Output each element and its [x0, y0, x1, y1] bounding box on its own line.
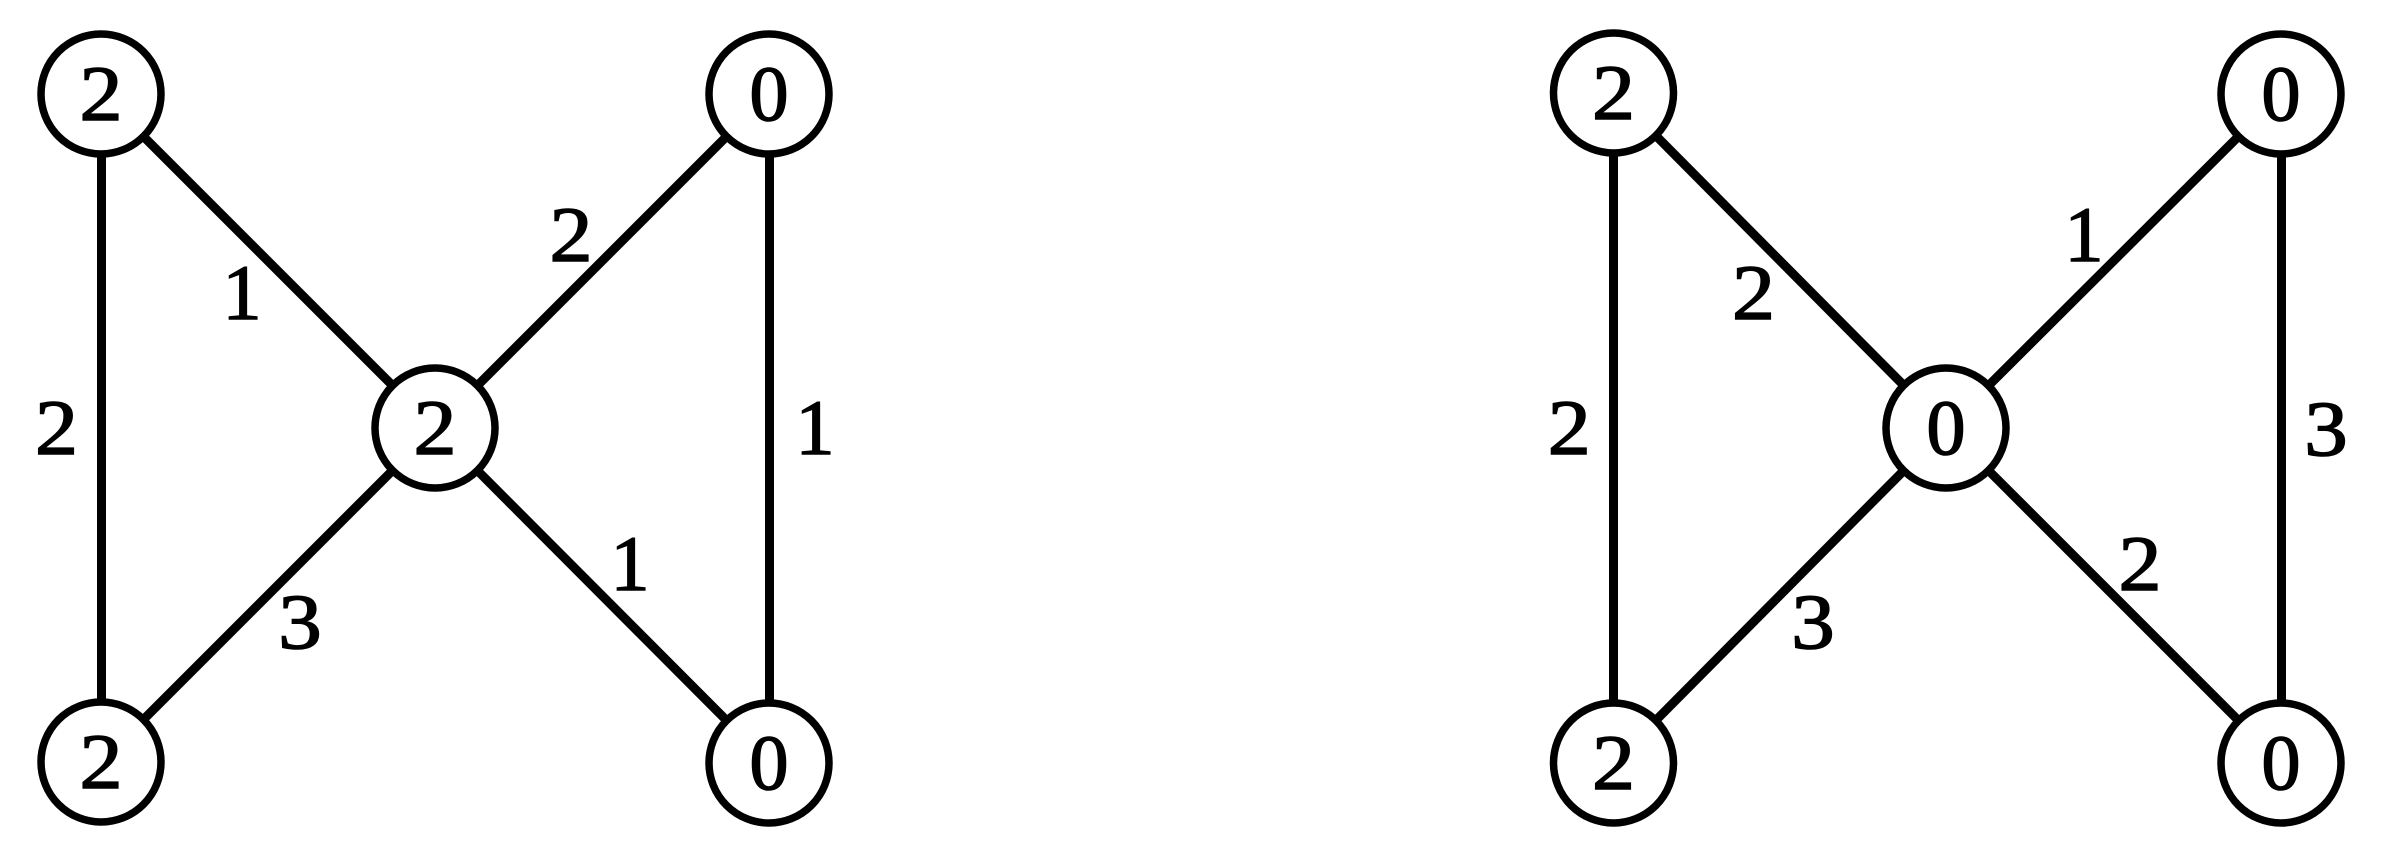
svg-text:2: 2: [80, 50, 123, 137]
node BL2 circle: [1554, 703, 1674, 823]
svg-text:2: 2: [35, 384, 78, 471]
svg-text:3: 3: [2304, 385, 2348, 472]
wire edge TL2-C2: [1614, 93, 1947, 428]
svg-text:0: 0: [1927, 384, 1966, 471]
svg-text:2: 2: [2119, 520, 2162, 607]
svg-text:2: 2: [1732, 249, 1775, 336]
svg-text:1: 1: [611, 520, 650, 607]
wire edge TL2-BL2: [1609, 93, 1618, 763]
svg-text:2: 2: [414, 384, 457, 471]
svg-text:3: 3: [278, 578, 322, 665]
node BR2 circle: [2221, 703, 2341, 823]
svg-text:1: 1: [223, 249, 262, 336]
svg-text:1: 1: [2065, 191, 2104, 278]
svg-text:3: 3: [1791, 578, 1835, 665]
wire edge C1-BR1: [435, 428, 769, 763]
wire edge C1-TR1: [435, 94, 769, 428]
wire edge TL1-C1: [101, 94, 435, 428]
wire edge TR1-BR1: [765, 94, 774, 763]
node BL1 circle: [41, 702, 161, 822]
wire edge TR2-BR2: [2277, 94, 2286, 763]
wire edge BL2-C2: [1614, 428, 1947, 763]
node C1 circle: [375, 368, 495, 488]
svg-text:1: 1: [796, 384, 835, 471]
wire edge TL1-BL1: [97, 94, 106, 762]
wire edge BL1-C1: [101, 428, 435, 762]
svg-text:0: 0: [750, 719, 789, 806]
node C2 circle: [1886, 368, 2006, 488]
svg-text:0: 0: [750, 50, 789, 137]
node TL1 circle: [41, 34, 161, 154]
wire edge C2-BR2: [1946, 428, 2281, 763]
node TL2 circle: [1554, 33, 1674, 153]
svg-text:2: 2: [80, 718, 123, 805]
svg-text:0: 0: [2262, 50, 2301, 137]
svg-text:2: 2: [1592, 719, 1635, 806]
node TR2 circle: [2221, 34, 2341, 154]
node BR1 circle: [709, 703, 829, 823]
node TR1 circle: [709, 34, 829, 154]
svg-text:0: 0: [2262, 719, 2301, 806]
svg-text:2: 2: [1548, 384, 1591, 471]
wire edge C2-TR2: [1946, 94, 2281, 428]
svg-text:2: 2: [1592, 49, 1635, 136]
svg-text:2: 2: [550, 191, 593, 278]
